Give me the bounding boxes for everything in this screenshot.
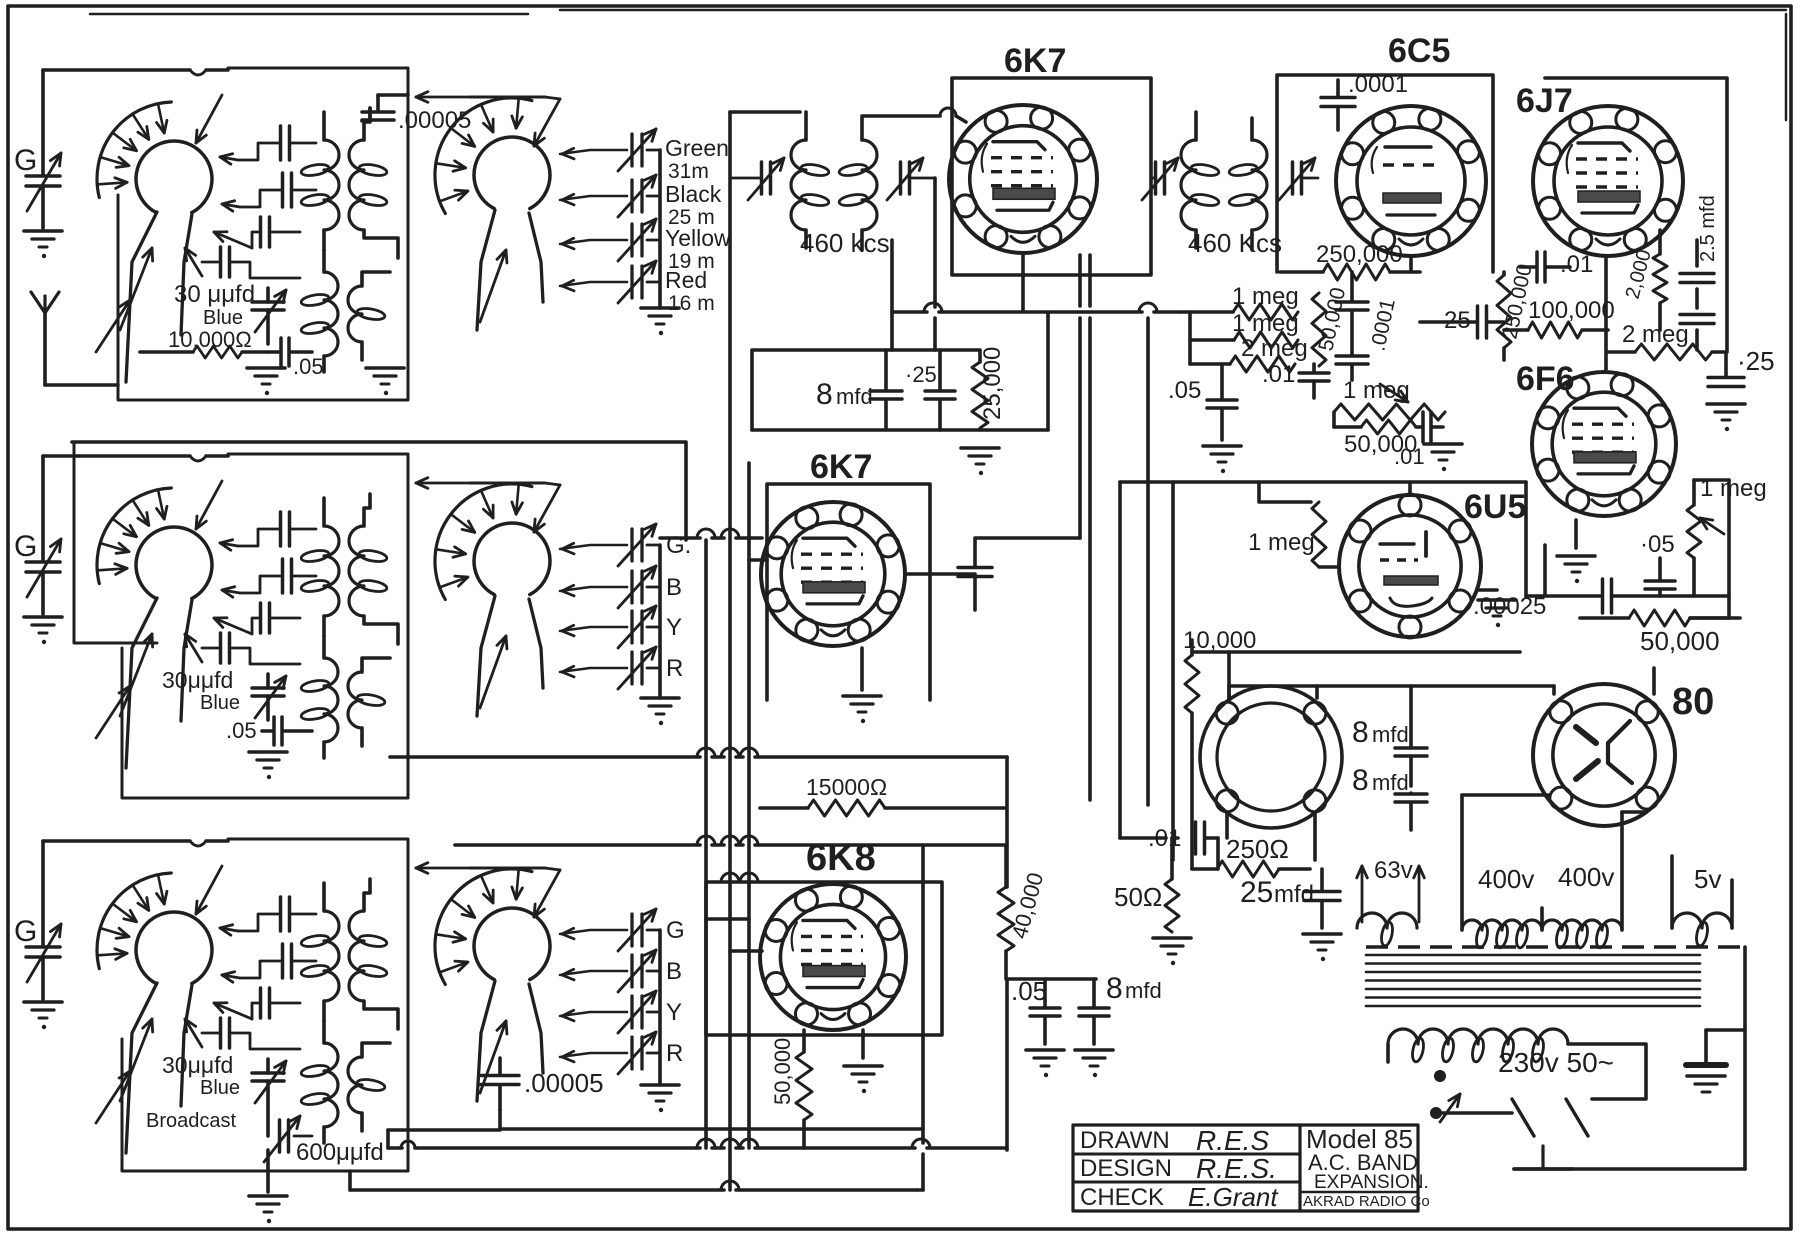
capacitor .01 b xyxy=(1394,412,1443,469)
capacitor .0001 stack xyxy=(1336,272,1400,380)
IF transformer 2 primary xyxy=(1181,112,1220,248)
ground block xyxy=(961,448,999,475)
svg-text:.00005: .00005 xyxy=(524,1068,604,1098)
antenna xyxy=(31,292,118,385)
stage1 box xyxy=(118,68,408,400)
resistor 100000 xyxy=(1504,297,1615,338)
wire G3 to coil xyxy=(43,841,228,846)
svg-text:AKRAD RADIO Co: AKRAD RADIO Co xyxy=(1303,1193,1430,1210)
label Broadcast xyxy=(146,1110,236,1132)
padder capacitor c1 xyxy=(214,217,300,248)
stage3 bottom box xyxy=(501,1127,923,1131)
svg-text:460 Kcs: 460 Kcs xyxy=(1188,228,1282,258)
svg-text:mfd: mfd xyxy=(1372,770,1409,795)
ground 6K7 mid xyxy=(843,648,881,723)
svg-text:Black: Black xyxy=(665,181,722,207)
svg-text:R: R xyxy=(666,1040,683,1067)
arrows into coil B3 xyxy=(480,870,560,1093)
padder capacitor b3 xyxy=(222,944,316,982)
band trimmer Black stage1 xyxy=(560,175,722,229)
ground .05 6K8 xyxy=(1026,1050,1064,1077)
winding 6.3v xyxy=(1357,857,1425,947)
tube 6C5 xyxy=(1336,106,1486,256)
trimmer 600uufd xyxy=(264,1106,384,1166)
padder capacitor a2 xyxy=(220,512,316,550)
wire IF1 to bus xyxy=(730,110,800,114)
block box xyxy=(752,350,980,430)
padder capacitor a3 xyxy=(220,897,316,935)
svg-text:Blue: Blue xyxy=(203,307,243,329)
svg-text:.01: .01 xyxy=(1262,361,1295,388)
svg-text:5v: 5v xyxy=(1694,864,1721,894)
wire cap00005 to rail xyxy=(388,1110,500,1130)
label 6F6 xyxy=(1516,360,1575,398)
svg-text:B: B xyxy=(666,574,682,601)
rail y686 output xyxy=(1229,684,1554,688)
label 6C5 xyxy=(1388,32,1450,70)
long rail y757 xyxy=(390,748,1007,757)
svg-text:8: 8 xyxy=(1106,972,1123,1005)
svg-text:2 meg: 2 meg xyxy=(1622,321,1689,348)
coil B2 wedge xyxy=(477,596,543,716)
ground stage1 a xyxy=(247,368,285,395)
capacitor .0001 top xyxy=(1321,71,1408,130)
6K8 grid wires xyxy=(706,919,762,951)
svg-text:Blue: Blue xyxy=(200,692,240,714)
IF transformer 1 secondary xyxy=(838,118,877,250)
svg-text:Blue: Blue xyxy=(200,1077,240,1099)
capacitor .01 mid xyxy=(1262,361,1329,398)
ground .05 mid xyxy=(1203,446,1241,473)
wire G2 to coil xyxy=(43,456,228,461)
wires 6K7 mid xyxy=(749,560,975,574)
svg-text:8: 8 xyxy=(816,378,833,411)
capacitor .05 stage2 xyxy=(226,717,312,745)
title block frame xyxy=(1073,1125,1418,1211)
svg-text:6F6: 6F6 xyxy=(1516,360,1575,398)
svg-text:mfd: mfd xyxy=(836,384,873,409)
RF transformer T2 primary xyxy=(300,498,339,636)
band trimmer G stage3 xyxy=(560,909,685,951)
vertical x1729 xyxy=(1694,480,1729,618)
tube 6K8 xyxy=(760,884,906,1030)
tube 6F6 xyxy=(1532,372,1676,516)
trimmer bus stage3 xyxy=(658,930,662,1085)
signature check xyxy=(1188,1182,1279,1212)
capacitor .00025 xyxy=(1473,579,1729,620)
resistor 40000 xyxy=(998,845,1048,979)
padder capacitor a1 xyxy=(220,126,316,164)
switch contacts xyxy=(1512,1099,1588,1136)
svg-text:50,000: 50,000 xyxy=(770,1038,795,1105)
svg-text:mfd: mfd xyxy=(1125,978,1162,1003)
wire 6K7 anode down xyxy=(890,240,894,350)
resistor 2 meg top right xyxy=(1608,321,1726,360)
capacitor .05 6K8 xyxy=(1011,976,1060,1044)
ground trimmer bank stage2 xyxy=(641,698,679,725)
wire G1 to coil xyxy=(43,70,228,75)
capacitor right of 6K7 mid xyxy=(958,540,992,610)
ground stage2 xyxy=(249,752,287,779)
label 6K7 first xyxy=(1004,42,1066,80)
coil A2 wedge xyxy=(126,598,192,768)
label 6K7 second xyxy=(810,448,872,486)
svg-text:Yellow: Yellow xyxy=(665,225,731,251)
svg-text:EXPANSION.: EXPANSION. xyxy=(1314,1172,1429,1193)
padder capacitor c3 xyxy=(214,988,300,1019)
stage3 box xyxy=(122,839,408,1171)
svg-text:25,000: 25,000 xyxy=(979,347,1006,420)
bandswitch coil B2 xyxy=(435,484,550,600)
svg-text:G: G xyxy=(14,144,37,177)
label 460 Kcs B xyxy=(1188,228,1282,258)
resistor 10000 ohm xyxy=(140,346,268,358)
tube 80 xyxy=(1533,684,1675,826)
winding 400v a xyxy=(1462,795,1548,949)
svg-text:15000Ω: 15000Ω xyxy=(806,774,887,800)
wire above B1 xyxy=(416,92,560,103)
capacitor .01 ps xyxy=(1148,822,1218,869)
band trimmer R stage2 xyxy=(560,647,683,689)
title Model 85 xyxy=(1306,1124,1413,1154)
capacitor .25 right xyxy=(1708,346,1775,387)
resistor 50000 v xyxy=(1312,285,1350,366)
ground stage3 bottom xyxy=(249,1150,287,1223)
svg-text:G: G xyxy=(14,530,37,563)
svg-text:16 m: 16 m xyxy=(668,292,715,315)
svg-text:10,000Ω: 10,000Ω xyxy=(168,327,252,352)
RF transformer T3 secondary xyxy=(349,879,398,1029)
svg-text:30μμfd: 30μμfd xyxy=(162,1052,233,1078)
vertical x1120 xyxy=(1120,482,1166,838)
svg-text:·25: ·25 xyxy=(1737,346,1775,376)
svg-text:R.E.S.: R.E.S. xyxy=(1196,1153,1277,1184)
capacitor 2.5mfd xyxy=(1680,195,1719,350)
IF1 tuning cap left xyxy=(730,158,784,200)
svg-text:1 meg: 1 meg xyxy=(1248,529,1315,556)
osc coil L1 secondary xyxy=(348,272,390,360)
signature design xyxy=(1196,1153,1277,1184)
coil B1 wedge xyxy=(477,210,543,330)
svg-text:.05: .05 xyxy=(1168,377,1201,404)
svg-text:·05: ·05 xyxy=(1640,531,1675,558)
capacitor .01 6J7 xyxy=(1520,251,1593,282)
svg-text:B: B xyxy=(666,958,682,985)
label 460 kcs A xyxy=(800,228,890,258)
IF1 tuning cap right xyxy=(887,158,935,200)
branch to 1meg xyxy=(1259,482,1311,502)
svg-text:mfd: mfd xyxy=(1372,722,1409,747)
ground stage1 b xyxy=(366,368,404,395)
resistor 1 meg row2 xyxy=(1190,310,1299,364)
svg-text:250Ω: 250Ω xyxy=(1226,834,1289,864)
svg-text:30 μμfd: 30 μμfd xyxy=(174,281,255,308)
trimmer 30uufd stage3 xyxy=(162,1052,286,1105)
tube 6J7 xyxy=(1533,106,1683,256)
svg-text:8: 8 xyxy=(1352,764,1369,797)
svg-text:Broadcast: Broadcast xyxy=(146,1110,236,1132)
resistor 250 ohm xyxy=(1192,834,1310,877)
svg-text:10,000: 10,000 xyxy=(1183,627,1256,654)
capacitor .05 6F6 xyxy=(1640,531,1675,596)
padder capacitor b2 xyxy=(222,559,316,597)
RF transformer T2 secondary xyxy=(349,494,398,644)
wire speaker pin drop xyxy=(1227,652,1231,700)
coil B3 wedge xyxy=(477,981,543,1101)
title DRAWN xyxy=(1080,1127,1170,1154)
osc coil L2 primary xyxy=(300,636,338,758)
wire 6F6 grid return xyxy=(1543,545,1547,596)
winding 400v b xyxy=(1542,812,1646,949)
resistor 50000 det xyxy=(1580,610,1740,656)
wire IF1 cap to block xyxy=(933,178,937,350)
capacitor .05 stage1 xyxy=(268,338,324,379)
band trimmer B stage3 xyxy=(560,950,682,992)
svg-text:80: 80 xyxy=(1672,681,1714,723)
wire rail x1148 xyxy=(1146,318,1150,805)
ground 8mfd 6K8 xyxy=(1075,1050,1113,1077)
band trimmer Y stage3 xyxy=(560,991,682,1033)
resistor 1meg pot 6F6 xyxy=(1687,475,1767,596)
svg-text:30μμfd: 30μμfd xyxy=(162,667,233,693)
capacitor .00005 stage3 xyxy=(481,1058,604,1110)
svg-text:8: 8 xyxy=(1352,716,1369,749)
label .25 block xyxy=(905,362,937,387)
6K7 wires xyxy=(862,108,1023,310)
IF transformer 2 secondary xyxy=(1228,118,1267,250)
ground 6F6 cath xyxy=(1557,520,1595,583)
svg-text:Red: Red xyxy=(665,267,707,293)
svg-text:R: R xyxy=(666,655,683,682)
svg-text:6K7: 6K7 xyxy=(1004,42,1066,80)
bus wire vertical 1 xyxy=(704,540,708,1148)
rail y482 AVC xyxy=(1120,480,1526,484)
IF transformer 1 primary xyxy=(791,112,830,248)
svg-text:.05: .05 xyxy=(226,718,257,743)
IF2 tuning cap left xyxy=(1142,158,1178,200)
6K7 IF box xyxy=(952,78,1151,275)
svg-text:6U5: 6U5 xyxy=(1464,488,1526,526)
trimmer bus stage1 xyxy=(658,150,662,308)
resistor 250000 vert xyxy=(1497,262,1537,360)
band trimmer Yellow stage1 xyxy=(560,219,731,273)
ground .25 right xyxy=(1707,404,1745,431)
svg-text:31m: 31m xyxy=(668,160,709,183)
coil A1 wedge xyxy=(126,212,192,382)
tube 6K7 first IF xyxy=(949,105,1097,253)
resistor 15000 xyxy=(760,774,1007,816)
capacitor 25mfd xyxy=(1240,869,1340,928)
coil A3 wedge xyxy=(126,983,192,1153)
transformer core dashed xyxy=(1366,945,1745,948)
svg-text:.0001: .0001 xyxy=(1348,71,1408,98)
arrows into coil A1 xyxy=(96,95,222,352)
osc coil L3 secondary xyxy=(348,1043,390,1131)
svg-text:R.E.S: R.E.S xyxy=(1196,1125,1269,1156)
bandswitch coil B3 xyxy=(435,869,550,985)
resistor 250000 h xyxy=(1280,241,1420,280)
svg-text:2.5 mfd: 2.5 mfd xyxy=(1697,195,1719,262)
title EXPANSION xyxy=(1314,1172,1429,1193)
wire 50000 det right xyxy=(1690,616,1729,620)
osc coil L3 primary xyxy=(300,1021,338,1143)
bandswitch coil B1 xyxy=(435,98,550,214)
ground 25mfd xyxy=(1303,934,1341,961)
RF transformer T1 primary xyxy=(300,112,339,250)
6C5 box xyxy=(1277,75,1493,272)
padder capacitor d1 xyxy=(185,247,300,278)
bus wire vertical 2 xyxy=(728,112,732,1190)
label 80 xyxy=(1672,681,1714,723)
RF transformer T3 primary xyxy=(300,883,339,1021)
tube 6U5 xyxy=(1339,482,1481,638)
label 6U5 xyxy=(1464,488,1526,526)
variable capacitor G2 (tuning gang) xyxy=(14,456,61,614)
svg-text:DRAWN: DRAWN xyxy=(1080,1127,1170,1154)
svg-text:460 kcs: 460 kcs xyxy=(800,228,890,258)
band trimmer Red stage1 xyxy=(560,261,715,315)
svg-text:1 meg: 1 meg xyxy=(1232,283,1299,310)
svg-text:100,000: 100,000 xyxy=(1528,297,1615,324)
svg-text:50,000: 50,000 xyxy=(1640,626,1720,656)
label 6K8 xyxy=(806,837,876,879)
capacitor .00005 stage1 xyxy=(362,95,471,134)
band trimmer Y stage2 xyxy=(560,606,682,648)
wire above B2 xyxy=(416,478,560,489)
band trimmer Green stage1 xyxy=(560,129,729,183)
padder capacitor c2 xyxy=(214,603,300,634)
title DESIGN xyxy=(1080,1155,1172,1182)
resistor 1 meg pot xyxy=(1334,377,1445,420)
signature drawn xyxy=(1196,1125,1269,1156)
ground below G2 xyxy=(24,617,62,644)
ground below G1 xyxy=(24,231,62,258)
svg-text:mfd: mfd xyxy=(1274,881,1314,908)
svg-text:6K7: 6K7 xyxy=(810,448,872,486)
wire 80 top pins xyxy=(1554,668,1654,694)
IF2 tuning cap right xyxy=(1279,158,1318,200)
resistor 50000 h2 xyxy=(1334,412,1417,458)
bottom rail 1 xyxy=(388,1130,1007,1148)
resistor 50000 6K8 xyxy=(770,1030,812,1148)
ground trimmer bank stage1 xyxy=(641,308,679,335)
trimmer 30uufd stage2 xyxy=(162,667,286,720)
svg-text:Y: Y xyxy=(666,999,682,1026)
svg-text:Y: Y xyxy=(666,614,682,641)
wire primary right xyxy=(1568,1044,1646,1099)
svg-text:50Ω: 50Ω xyxy=(1114,882,1162,912)
tube 6K7 second xyxy=(761,502,905,646)
band trimmer G. stage2 xyxy=(560,524,691,566)
resistor 1meg 6U5 xyxy=(1248,502,1336,567)
wire speaker pins xyxy=(1227,686,1317,860)
bandswitch coil A3 xyxy=(97,873,212,984)
variable capacitor G3 (tuning gang) xyxy=(14,841,61,999)
bandswitch coil A2 xyxy=(97,488,212,599)
capacitor 8mfd block xyxy=(870,350,902,430)
bandswitch coil A1 xyxy=(97,102,212,213)
ground below G3 xyxy=(24,1002,62,1029)
rail into 6K7 grid xyxy=(660,529,762,538)
stage2 box xyxy=(74,442,408,798)
6K8 box xyxy=(706,873,942,1035)
svg-text:G: G xyxy=(666,917,685,944)
band trimmer B stage2 xyxy=(560,566,682,608)
resistor 10000 v xyxy=(1183,627,1256,869)
rail y652 detector xyxy=(1192,650,1520,654)
wire 6J7 to 6F6 xyxy=(1604,256,1608,372)
ground trimmer bank stage3 xyxy=(641,1085,679,1112)
svg-text:.01: .01 xyxy=(1560,251,1593,278)
osc coil L2 secondary xyxy=(348,658,390,746)
svg-text:DESIGN: DESIGN xyxy=(1080,1155,1172,1182)
resistor 25000 block xyxy=(972,347,1006,428)
bus wire vertical 3 xyxy=(747,463,751,1148)
arrows into coil B1 xyxy=(480,99,560,322)
svg-text:6K8: 6K8 xyxy=(806,837,876,879)
padder capacitor b1 xyxy=(222,173,316,211)
rail y845 xyxy=(455,836,1007,845)
svg-text:230v 50~: 230v 50~ xyxy=(1498,1047,1614,1078)
capacitor 25 xyxy=(1420,306,1504,338)
arrows into coil A2 xyxy=(96,481,222,738)
svg-text:63v: 63v xyxy=(1374,857,1413,884)
padder capacitor d3 xyxy=(185,1018,300,1049)
capacitor .25 block xyxy=(925,350,955,430)
winding primary 230v xyxy=(1388,1029,1614,1078)
svg-text:1 meg: 1 meg xyxy=(1232,310,1299,337)
ground 50000 xyxy=(1424,444,1462,471)
svg-text:Green: Green xyxy=(665,135,729,161)
wire above B3 xyxy=(416,863,560,874)
B+ rail xyxy=(1007,979,1096,1150)
resistor 2 meg row3 xyxy=(1190,335,1308,372)
switch dots xyxy=(1430,1070,1512,1122)
capacitor 8mfd b xyxy=(1352,764,1427,830)
arrows into coil B2 xyxy=(480,485,560,708)
speaker field circle xyxy=(1200,686,1342,828)
svg-text:CHECK: CHECK xyxy=(1080,1184,1164,1211)
variable capacitor G1 (tuning gang) xyxy=(14,70,61,228)
band trimmer R stage3 xyxy=(560,1032,683,1074)
title AC BAND xyxy=(1308,1150,1418,1175)
vertical x1173 xyxy=(1171,482,1175,860)
svg-text:25: 25 xyxy=(1240,876,1273,909)
capacitor 8mfd a xyxy=(1352,686,1427,786)
title AKRAD xyxy=(1303,1193,1430,1210)
bottom rail 2 xyxy=(350,845,923,1190)
rail y312 xyxy=(892,303,1180,312)
svg-text:600μμfd: 600μμfd xyxy=(296,1139,384,1166)
label 6J7 xyxy=(1516,82,1573,120)
svg-text:·25: ·25 xyxy=(905,362,937,387)
arrows into coil A3 xyxy=(96,866,222,1123)
svg-text:400v: 400v xyxy=(1558,862,1614,892)
svg-text:.05: .05 xyxy=(293,354,324,379)
svg-text:E.Grant: E.Grant xyxy=(1188,1182,1279,1212)
svg-text:400v: 400v xyxy=(1478,864,1534,894)
svg-text:G: G xyxy=(14,915,37,948)
long rail stage2 top xyxy=(72,442,686,540)
wire x1080 xyxy=(975,255,1080,538)
title CHECK xyxy=(1080,1184,1164,1211)
svg-text:6J7: 6J7 xyxy=(1516,82,1573,120)
wire x1048 xyxy=(980,312,1048,430)
vertical x1007 xyxy=(1005,757,1009,887)
resistor 1 meg row1 xyxy=(1180,283,1299,320)
ground ps right xyxy=(1686,1030,1745,1092)
6K7 mid box xyxy=(767,484,930,700)
